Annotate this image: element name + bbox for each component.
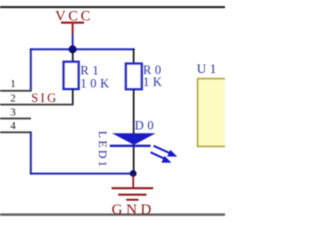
ground bbox=[112, 175, 155, 218]
pin 3 bbox=[0, 106, 31, 119]
wire R1 top lead bbox=[72, 52, 74, 62]
LED light arrow 1 bbox=[154, 146, 178, 157]
svg-text:10K: 10K bbox=[80, 77, 112, 91]
junction A (VCC / top rail) bbox=[69, 45, 77, 53]
wire left vertical (pin 4 to bottom rail) bbox=[30, 131, 32, 174]
junction B (LED / bottom rail) bbox=[130, 170, 137, 177]
svg-text:3: 3 bbox=[10, 106, 16, 118]
LED D0 triangle bbox=[112, 133, 156, 145]
svg-text:1K: 1K bbox=[143, 75, 165, 89]
power VCC bbox=[55, 9, 93, 34]
LED D0 cathode bar bbox=[110, 145, 151, 147]
resistor R0 bbox=[126, 64, 142, 90]
resistor R1 bbox=[64, 62, 79, 89]
wire VCC stem bbox=[72, 34, 74, 47]
svg-text:GND: GND bbox=[112, 202, 155, 218]
wire R0 bottom lead / LED lead bbox=[133, 89, 135, 173]
svg-text:1: 1 bbox=[10, 78, 16, 90]
wire R1 bottom lead bbox=[72, 89, 74, 105]
pin 2 bbox=[0, 93, 74, 106]
wire top horizontal bbox=[30, 48, 135, 50]
wire R0 top lead bbox=[133, 48, 135, 63]
svg-text:U1: U1 bbox=[197, 61, 220, 76]
pin 4 bbox=[0, 120, 31, 133]
svg-text:2: 2 bbox=[10, 93, 16, 105]
op-amp U1 body (partially off-sheet) bbox=[198, 79, 228, 147]
svg-text:LED1: LED1 bbox=[96, 131, 110, 169]
LED light arrow 2 bbox=[151, 152, 172, 162]
svg-text:R1: R1 bbox=[80, 63, 102, 77]
svg-text:D0: D0 bbox=[135, 119, 157, 133]
wire bottom horizontal bbox=[30, 173, 134, 175]
svg-text:SIG: SIG bbox=[31, 91, 58, 105]
pin 1 bbox=[0, 78, 31, 92]
wire left vertical (top rail to pin 1) bbox=[30, 48, 32, 91]
svg-text:4: 4 bbox=[10, 120, 16, 132]
